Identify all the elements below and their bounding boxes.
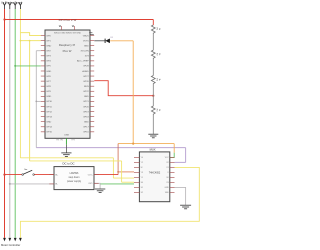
svg-text:GP15: GP15: [46, 132, 52, 134]
node junction red chain mid: [152, 95, 154, 97]
svg-text:GP20: GP20: [83, 106, 89, 108]
wire gray bus vertical: [9, 9, 11, 238]
node display connector arrow 3: [14, 2, 17, 9]
wire red horizontal top to resistor chain: [5, 19, 154, 21]
pin top stubs pico: [62, 26, 75, 30]
wire orange down to mux right top: [173, 144, 175, 153]
wire yellow A vertical: [112, 158, 114, 178]
wire green to mux pin6 low: [100, 183, 134, 185]
node display connector arrow 1: [3, 2, 6, 9]
pin stubs pico left: [41, 36, 45, 132]
svg-text:S1: S1: [141, 187, 143, 189]
svg-text:S0: S0: [141, 182, 143, 184]
svg-text:RPi Pico 2 W: RPi Pico 2 W: [59, 18, 77, 22]
wire yellow A horizontal: [20, 157, 113, 159]
svg-text:VBUS: VBUS: [83, 35, 89, 37]
svg-text:TP3: TP3: [71, 140, 74, 142]
wire gray dcdc in minus: [10, 183, 54, 185]
diode D1: [105, 37, 114, 43]
pin stubs dcdc: [49, 175, 98, 184]
pin labels pico left: [46, 35, 52, 133]
resistor R2: [151, 50, 155, 59]
wire gray dcdc out minus: [94, 183, 100, 188]
svg-text:GP19: GP19: [83, 111, 89, 113]
wire green branch to pico GP4: [15, 65, 41, 67]
wire gray mux gnd: [175, 187, 186, 205]
svg-text:GND: GND: [84, 121, 89, 123]
svg-text:X0: X0: [166, 177, 168, 179]
svg-text:Motor Controller: Motor Controller: [1, 243, 20, 247]
wire red switch to dcdc: [35, 174, 55, 176]
wire orange diode to vertical: [110, 40, 133, 42]
node motor connector arrow 1: [3, 238, 6, 242]
op ic U1 Raspberry Pi Pico: [45, 18, 90, 138]
svg-text:step down: step down: [69, 176, 81, 179]
ic U2 74HC4052 MUX: [139, 148, 169, 202]
svg-text:Y0: Y0: [141, 157, 143, 159]
node display connector arrow 4: [19, 2, 22, 9]
node display connector arrow 2: [8, 2, 11, 9]
wire yellow branch jog to GP0: [20, 33, 40, 36]
svg-text:GP5: GP5: [46, 66, 51, 68]
svg-text:Y2: Y2: [141, 162, 143, 164]
svg-text:GP11: GP11: [46, 106, 52, 108]
svg-text:VSYS: VSYS: [83, 40, 89, 42]
wire violet vertical right: [185, 148, 187, 163]
wire red dcdc out: [94, 174, 118, 176]
wire chain R2-R3: [152, 59, 154, 76]
wire green bus vertical: [14, 9, 16, 238]
svg-text:GND: GND: [46, 121, 51, 123]
svg-text:OUT+: OUT+: [88, 174, 94, 176]
wire red bus vertical: [4, 9, 6, 238]
svg-text:GP6: GP6: [46, 76, 51, 78]
svg-text:AGND: AGND: [82, 70, 89, 73]
wire yellow horizontal to GP1: [20, 40, 40, 42]
svg-text:X3: X3: [166, 182, 168, 184]
svg-text:GP0: GP0: [46, 35, 51, 37]
svg-text:GND: GND: [84, 96, 89, 98]
svg-text:RUN: RUN: [84, 86, 89, 88]
svg-text:GP10: GP10: [46, 101, 52, 103]
svg-text:GND: GND: [46, 71, 51, 73]
wire red vertical from dcdc out: [117, 144, 119, 175]
wire yellow mid vertical: [29, 41, 31, 161]
svg-text:power supply: power supply: [67, 180, 82, 183]
node junction yellow bus: [20, 40, 22, 42]
wire violet horizontal long: [36, 147, 185, 149]
svg-text:DC to DC: DC to DC: [63, 161, 75, 165]
wire yellow B horizontal: [30, 160, 122, 162]
svg-text:Sw: Sw: [24, 169, 27, 171]
wire red pico GP26 to chain: [94, 81, 153, 96]
svg-text:GP27: GP27: [83, 76, 89, 78]
svg-text:GP13: GP13: [46, 116, 52, 118]
resistor R4: [151, 106, 155, 115]
svg-text:GND: GND: [164, 187, 169, 189]
svg-text:GP22: GP22: [83, 91, 89, 93]
svg-text:X1: X1: [166, 167, 168, 169]
svg-text:GP7: GP7: [46, 81, 51, 83]
wire gray vertical mid: [35, 51, 37, 148]
svg-text:GP9: GP9: [46, 91, 51, 93]
svg-text:TP1 TP2: TP1 TP2: [56, 140, 63, 142]
svg-text:MUX: MUX: [150, 148, 156, 152]
wire yellow A to mux pin5: [113, 177, 134, 179]
node junction red bus low: [3, 174, 5, 176]
svg-text:S2: S2: [141, 192, 143, 194]
ic X1 DC to DC converter: [54, 161, 94, 189]
svg-text:GP2: GP2: [46, 51, 51, 53]
node junction red bus top: [3, 18, 5, 20]
wire chain R3-R4: [152, 84, 154, 106]
pin stubs mux left: [134, 157, 139, 192]
node junction gray mid: [35, 101, 37, 103]
ground mux: [180, 205, 191, 209]
svg-text:OUT-: OUT-: [88, 183, 93, 185]
wire gray stub to pico GP2: [36, 50, 41, 52]
wire yellow mux right pin3: [20, 167, 199, 238]
pin VBUS tiny tap: [89, 33, 94, 35]
ground chain: [148, 134, 158, 138]
svg-text:GP21: GP21: [83, 101, 89, 103]
svg-text:GP18: GP18: [83, 116, 89, 118]
wire chain R4-gnd: [152, 114, 154, 133]
svg-text:GND: GND: [46, 45, 51, 47]
svg-text:GP8: GP8: [46, 86, 51, 88]
pin USB bottom stub: [65, 138, 67, 144]
svg-text:GND: GND: [46, 96, 51, 98]
pin top arrows pico: [59, 25, 74, 27]
node junction gray bus low: [9, 183, 11, 185]
svg-text:W: W: [141, 167, 143, 169]
svg-text:Raspberry Pi: Raspberry Pi: [59, 43, 76, 47]
wire yellow B vertical: [121, 161, 123, 182]
resistor R3: [151, 76, 155, 85]
ground pico: [61, 153, 71, 157]
svg-text:GND: GND: [84, 45, 89, 47]
svg-text:USB: USB: [64, 134, 69, 136]
pin stubs mux right: [170, 157, 175, 192]
svg-text:GP12: GP12: [46, 111, 52, 113]
svg-text:GP16: GP16: [83, 132, 89, 134]
wire chain R1-R2: [152, 33, 154, 50]
wire orange vertical long: [132, 41, 134, 144]
svg-text:GP17: GP17: [83, 127, 89, 129]
svg-text:GP26: GP26: [83, 81, 89, 83]
pin labels pico right: [77, 35, 89, 133]
wire gray usb to ground: [65, 145, 67, 153]
svg-text:GP1: GP1: [46, 40, 51, 42]
node junction orange: [132, 143, 134, 145]
wire violet to mux pin: [175, 161, 186, 163]
svg-text:Y1: Y1: [141, 177, 143, 179]
svg-text:GP4: GP4: [46, 61, 51, 63]
wire dark wire pico VSYS to diode: [94, 40, 105, 42]
wire red chain drop: [152, 20, 154, 26]
node junction orange mux: [117, 171, 119, 173]
pin labels dcdc: [55, 174, 93, 185]
wire green mux right pin1: [170, 153, 174, 158]
node motor connector arrow 3: [14, 238, 17, 242]
ground dcdc: [95, 189, 105, 193]
switch SW1: [22, 169, 35, 175]
svg-text:ADC_VREF: ADC_VREF: [77, 60, 89, 63]
svg-text:Pico W: Pico W: [63, 49, 72, 53]
svg-text:GP3: GP3: [46, 56, 51, 58]
node motor connector arrow 2: [8, 238, 11, 242]
wire gray stub to pico GP9: [36, 100, 41, 102]
pin labels mux right: [164, 157, 169, 194]
node junction yellow mid: [29, 40, 31, 42]
svg-text:LM2596: LM2596: [70, 172, 79, 175]
pin labels mux left: [141, 157, 143, 194]
svg-text:GP28: GP28: [83, 66, 89, 68]
svg-text:74HC4052: 74HC4052: [149, 172, 161, 175]
wire red switch feed left: [5, 174, 22, 176]
wire orange branch to mux pin4: [118, 171, 134, 173]
svg-text:X2: X2: [166, 162, 168, 164]
wire orange horizontal: [118, 143, 174, 145]
svg-text:IN-: IN-: [55, 184, 58, 186]
svg-text:GP14: GP14: [46, 127, 52, 129]
pin stubs pico right: [90, 36, 94, 132]
wire yellow bus vertical: [19, 9, 21, 158]
wire yellow B to mux pin6: [122, 181, 134, 183]
svg-text:Y3: Y3: [141, 172, 143, 174]
svg-text:3V3_EN: 3V3_EN: [81, 51, 90, 53]
node motor connector arrow 4: [19, 238, 22, 242]
node junction green bus: [14, 65, 16, 67]
svg-text:SWCLK GND SWDIO 3V3 GND: SWCLK GND SWDIO 3V3 GND: [54, 32, 82, 34]
resistor R1: [151, 25, 155, 34]
svg-text:VCC: VCC: [165, 157, 170, 159]
